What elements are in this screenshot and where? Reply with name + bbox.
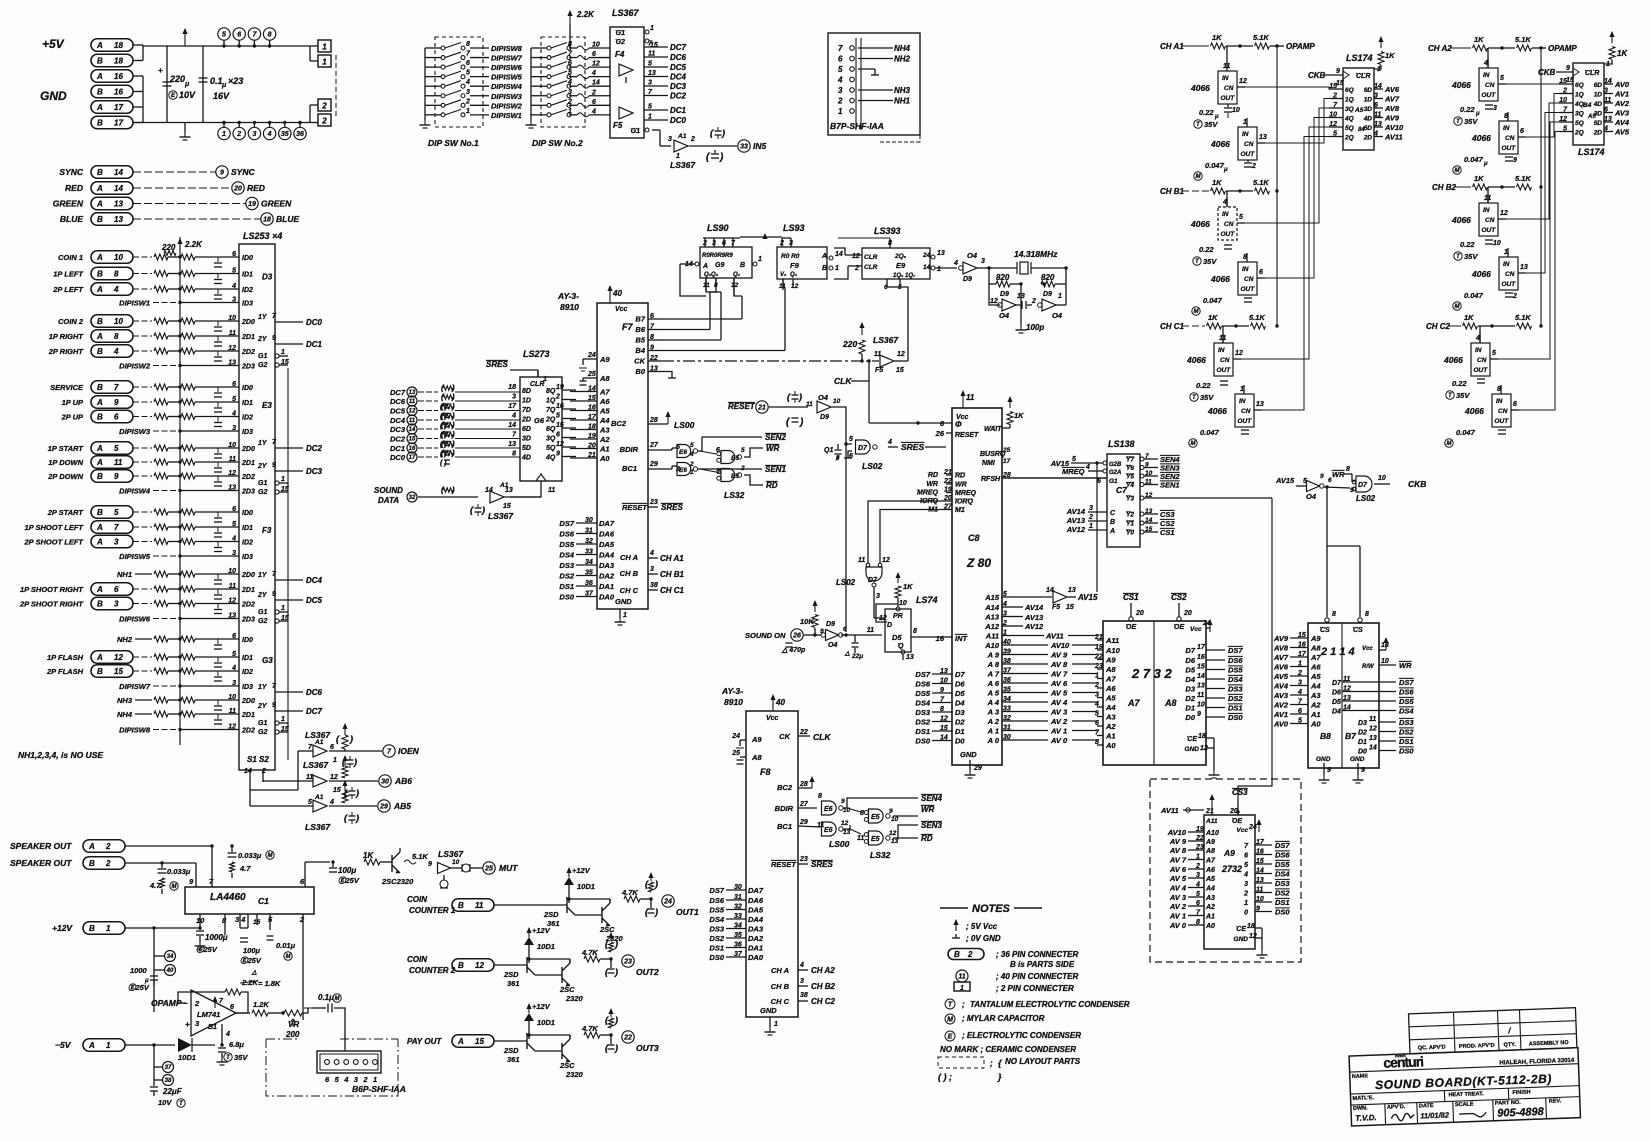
svg-text:ID3: ID3	[242, 684, 253, 691]
svg-text:): )	[451, 449, 455, 458]
svg-text:DS7: DS7	[1228, 646, 1243, 655]
svg-text:OE: OE	[1126, 624, 1136, 631]
svg-text:D5: D5	[1332, 699, 1341, 706]
svg-text:5.1K: 5.1K	[1253, 178, 1269, 187]
svg-text:3: 3	[252, 131, 256, 138]
svg-text:18: 18	[263, 217, 271, 224]
svg-text:1000: 1000	[130, 966, 148, 975]
svg-text:B: B	[97, 119, 103, 128]
svg-text:32: 32	[585, 538, 593, 545]
svg-text:APV’D.: APV’D.	[1387, 1104, 1406, 1111]
svg-text:31: 31	[734, 894, 742, 901]
svg-text:CH B2: CH B2	[811, 982, 836, 991]
svg-text:B: B	[97, 270, 103, 279]
svg-text:4066: 4066	[1451, 80, 1471, 90]
svg-text:27: 27	[799, 801, 809, 808]
svg-text:DIPISW2: DIPISW2	[119, 362, 151, 371]
svg-text:T: T	[948, 1002, 953, 1009]
svg-text:NOTES: NOTES	[972, 903, 1011, 915]
svg-text:G6: G6	[534, 416, 545, 425]
svg-text:+5V: +5V	[42, 37, 65, 51]
svg-text:100p: 100p	[1026, 323, 1044, 332]
svg-text:A0: A0	[1310, 720, 1321, 729]
svg-text:15: 15	[475, 1037, 484, 1046]
svg-text:1K: 1K	[903, 582, 913, 591]
svg-text:1Y: 1Y	[258, 684, 268, 691]
svg-text:1: 1	[676, 153, 680, 160]
svg-text:AV 9: AV 9	[1169, 837, 1187, 846]
svg-text:LS32: LS32	[870, 850, 891, 860]
svg-text:G1: G1	[258, 720, 267, 727]
svg-text:37: 37	[165, 1065, 172, 1071]
svg-text:CH A1: CH A1	[1160, 42, 1184, 51]
svg-text:+: +	[158, 66, 163, 75]
svg-text:DS0: DS0	[1228, 713, 1243, 722]
svg-text:1: 1	[623, 612, 627, 619]
svg-text:27: 27	[649, 442, 659, 449]
svg-text:F3: F3	[262, 526, 272, 535]
svg-text:V₀: V₀	[780, 272, 787, 278]
svg-text:AV 1: AV 1	[1169, 912, 1186, 921]
svg-text:10D1: 10D1	[537, 1018, 555, 1027]
svg-text:Y4: Y4	[1126, 482, 1134, 489]
svg-text:5: 5	[232, 521, 236, 528]
svg-text:6: 6	[114, 585, 119, 594]
svg-text:5: 5	[1492, 350, 1496, 357]
svg-text:13: 13	[843, 829, 851, 836]
svg-text:4: 4	[113, 285, 119, 294]
svg-text:△: △	[251, 969, 257, 976]
svg-text:29: 29	[379, 804, 388, 811]
svg-text:LS02: LS02	[862, 461, 883, 471]
svg-text:G1: G1	[258, 480, 267, 487]
svg-text:): )	[481, 505, 485, 515]
svg-text:DC4: DC4	[670, 73, 687, 82]
svg-text:14: 14	[508, 422, 516, 429]
svg-text:2Y: 2Y	[257, 463, 268, 470]
svg-text:10: 10	[833, 398, 841, 405]
svg-text:CN: CN	[1224, 221, 1234, 228]
svg-text:DIPISW5: DIPISW5	[491, 73, 523, 82]
svg-text:A 0: A 0	[987, 736, 1000, 745]
svg-text:): )	[654, 907, 658, 917]
svg-text:5: 5	[1072, 456, 1076, 463]
svg-text:= 1.8K: = 1.8K	[258, 979, 281, 988]
svg-text:μ: μ	[835, 455, 840, 461]
svg-text:CH B: CH B	[771, 982, 790, 991]
svg-text:DS7: DS7	[559, 519, 574, 528]
svg-text:9: 9	[1566, 65, 1570, 72]
svg-text:12: 12	[879, 615, 887, 622]
svg-text:2P FLASH: 2P FLASH	[46, 667, 84, 676]
svg-text:15: 15	[1066, 604, 1074, 611]
svg-text:31: 31	[585, 528, 593, 535]
svg-text:SERVICE: SERVICE	[50, 383, 84, 392]
svg-text:12: 12	[330, 774, 338, 781]
svg-text:5: 5	[556, 413, 560, 420]
svg-text:1Y: 1Y	[258, 440, 268, 447]
svg-text:6: 6	[838, 55, 843, 64]
svg-text:B: B	[740, 262, 745, 269]
svg-text:DS6: DS6	[559, 530, 574, 539]
svg-text:A5: A5	[599, 407, 610, 416]
svg-text:DS1: DS1	[1399, 737, 1414, 746]
svg-text:COIN 2: COIN 2	[58, 317, 84, 326]
svg-text:A: A	[96, 200, 103, 209]
svg-text:40: 40	[775, 698, 785, 707]
svg-text:IN: IN	[1483, 207, 1490, 214]
svg-text:28: 28	[799, 781, 808, 788]
svg-text:9: 9	[889, 808, 893, 815]
svg-text:OUT: OUT	[1502, 145, 1517, 152]
svg-text:1D: 1D	[522, 398, 531, 405]
svg-text:2P UP: 2P UP	[61, 413, 84, 422]
svg-text:361: 361	[507, 979, 520, 988]
svg-text:3: 3	[668, 136, 672, 143]
svg-text:2: 2	[105, 859, 111, 868]
svg-text:B: B	[97, 215, 103, 224]
svg-text:2: 2	[321, 102, 327, 111]
svg-text:IN: IN	[1503, 261, 1510, 268]
svg-text:DC0: DC0	[306, 318, 323, 327]
svg-text:36: 36	[585, 580, 593, 587]
svg-text:14: 14	[835, 251, 843, 258]
svg-text:CH A: CH A	[771, 966, 789, 975]
svg-text:; 5V Vcc: ; 5V Vcc	[966, 922, 998, 931]
svg-text:6Q: 6Q	[546, 426, 556, 433]
svg-text:40: 40	[166, 968, 174, 974]
svg-text:32: 32	[409, 495, 416, 501]
svg-text:9: 9	[114, 398, 119, 407]
svg-text:CH A2: CH A2	[1428, 44, 1452, 53]
svg-text:12: 12	[228, 598, 236, 605]
svg-text:DS4: DS4	[1275, 870, 1290, 879]
svg-text:10: 10	[1232, 107, 1240, 114]
svg-text:35V: 35V	[1464, 117, 1478, 126]
svg-text:2320: 2320	[565, 1070, 584, 1079]
svg-text:SPEAKER OUT: SPEAKER OUT	[10, 841, 72, 851]
svg-text:ID3: ID3	[242, 301, 253, 308]
svg-text:AV1: AV1	[1614, 90, 1629, 99]
svg-text:10: 10	[940, 678, 948, 685]
svg-text:CLR: CLR	[864, 254, 878, 261]
svg-text:NO LAYOUT PARTS: NO LAYOUT PARTS	[1005, 1057, 1081, 1066]
svg-text:4: 4	[465, 79, 470, 86]
svg-text:DA3: DA3	[599, 561, 615, 570]
svg-text:4: 4	[231, 536, 236, 543]
svg-text:B: B	[97, 383, 103, 392]
svg-text:3: 3	[876, 593, 880, 600]
svg-text:AV 9: AV 9	[1050, 651, 1068, 660]
svg-text:3D: 3D	[522, 436, 531, 443]
svg-text:1: 1	[1196, 854, 1200, 861]
svg-text:CKB: CKB	[1538, 68, 1556, 77]
svg-text:2SC: 2SC	[599, 925, 615, 934]
svg-text:6: 6	[592, 99, 596, 106]
svg-text:2D: 2D	[521, 417, 531, 424]
svg-text:F8: F8	[760, 767, 771, 777]
svg-text:COIN: COIN	[407, 955, 427, 964]
svg-text:REV.: REV.	[1549, 1098, 1562, 1104]
svg-text:LS367: LS367	[438, 849, 464, 859]
svg-text:DA1: DA1	[748, 944, 763, 953]
svg-text:DA2: DA2	[748, 934, 764, 943]
svg-text:9: 9	[272, 702, 276, 709]
svg-text:21: 21	[757, 405, 766, 412]
svg-text:BUSRQ: BUSRQ	[980, 451, 1006, 458]
svg-text:DATA: DATA	[378, 496, 399, 505]
svg-text:8: 8	[940, 706, 944, 713]
svg-text:GND: GND	[760, 1006, 777, 1015]
svg-text:DC5: DC5	[306, 596, 323, 605]
svg-text:0.033μ: 0.033μ	[167, 867, 191, 876]
svg-text:ID1: ID1	[242, 272, 253, 279]
svg-text:A4: A4	[1310, 682, 1321, 691]
svg-text:DA4: DA4	[599, 551, 615, 560]
svg-text:GREEN: GREEN	[53, 199, 84, 209]
svg-text:11: 11	[1369, 716, 1376, 723]
svg-text:D6: D6	[1332, 690, 1341, 697]
svg-text:FINISH: FINISH	[1512, 1089, 1530, 1096]
svg-text:; ELECTROLYTIC CONDENSER: ; ELECTROLYTIC CONDENSER	[962, 1031, 1081, 1040]
svg-text:CN: CN	[1244, 141, 1254, 148]
svg-text:E6: E6	[824, 827, 833, 834]
svg-text:13: 13	[1197, 683, 1205, 690]
svg-text:0.033μ: 0.033μ	[238, 851, 262, 860]
svg-text:DS3: DS3	[709, 925, 724, 934]
svg-text:D5: D5	[892, 633, 902, 642]
svg-text:12: 12	[731, 282, 739, 289]
svg-text:25: 25	[731, 750, 740, 757]
svg-text:DS0: DS0	[709, 953, 724, 962]
svg-text:4: 4	[343, 1075, 349, 1084]
svg-text:MREQ: MREQ	[917, 490, 939, 497]
svg-text:2D1: 2D1	[241, 460, 255, 467]
svg-text:DS7: DS7	[1399, 678, 1414, 687]
svg-text:5: 5	[648, 104, 652, 111]
svg-text:E5: E5	[871, 836, 880, 843]
svg-text:CN: CN	[1485, 82, 1495, 89]
svg-text:16: 16	[114, 72, 123, 81]
svg-text:2: 2	[591, 89, 596, 96]
svg-text:S1 S2: S1 S2	[247, 755, 269, 764]
svg-text:E: E	[948, 1034, 953, 1041]
svg-text:3: 3	[648, 80, 652, 87]
svg-text:DA4: DA4	[748, 915, 764, 924]
svg-text:22: 22	[799, 729, 808, 736]
svg-text:A0: A0	[1105, 741, 1116, 750]
svg-text:A3: A3	[1205, 895, 1215, 902]
svg-text:): )	[654, 879, 658, 889]
svg-text:DS6: DS6	[709, 896, 724, 905]
svg-text:A: A	[96, 444, 103, 453]
svg-text:NH1: NH1	[117, 570, 132, 579]
svg-text:CH B2: CH B2	[1432, 183, 1457, 192]
svg-text:820: 820	[1041, 273, 1055, 282]
svg-text:0.047: 0.047	[1200, 428, 1220, 437]
svg-text:2D3: 2D3	[241, 364, 255, 371]
svg-text:19: 19	[248, 201, 256, 208]
svg-text:7: 7	[114, 523, 119, 532]
svg-text:CS1: CS1	[1160, 528, 1175, 537]
svg-text:IN: IN	[1218, 347, 1225, 354]
svg-text:4066: 4066	[1210, 139, 1230, 149]
svg-text:B: B	[458, 901, 464, 910]
svg-text:2: 2	[299, 915, 305, 924]
svg-text:14: 14	[1046, 587, 1054, 594]
svg-text:G2B: G2B	[1109, 462, 1122, 468]
svg-text:A 2: A 2	[987, 717, 1000, 726]
svg-text:D9: D9	[963, 276, 972, 283]
svg-text:R0R0R9R9: R0R0R9R9	[702, 253, 733, 259]
svg-text:5: 5	[222, 32, 226, 39]
svg-text:AV8: AV8	[1273, 644, 1289, 653]
svg-text:13: 13	[228, 360, 236, 367]
svg-text:23: 23	[623, 959, 632, 966]
svg-text:4: 4	[1243, 872, 1248, 879]
svg-text:DA3: DA3	[748, 925, 764, 934]
svg-text:CLK: CLK	[834, 376, 852, 386]
svg-text:6Q: 6Q	[1575, 82, 1584, 89]
svg-text:17: 17	[1003, 458, 1011, 465]
svg-text:25: 25	[1002, 447, 1011, 454]
svg-text:30: 30	[734, 884, 742, 891]
svg-text:2D3: 2D3	[241, 617, 255, 624]
svg-text:DATE: DATE	[1419, 1103, 1434, 1110]
svg-text:E6: E6	[824, 806, 833, 813]
svg-text:IN: IN	[1222, 75, 1229, 82]
svg-text:D0: D0	[1185, 713, 1195, 722]
svg-text:38: 38	[165, 1078, 172, 1084]
svg-text:AV9: AV9	[1384, 114, 1400, 123]
svg-text:DS5: DS5	[1228, 666, 1243, 675]
svg-text:9: 9	[272, 462, 276, 469]
svg-text:WR: WR	[921, 805, 935, 814]
svg-text:5: 5	[849, 436, 853, 443]
svg-text:2 7 3 2: 2 7 3 2	[1131, 666, 1173, 681]
svg-text:A: A	[457, 1037, 464, 1046]
svg-text:1Q: 1Q	[1575, 92, 1584, 99]
svg-text:): )	[451, 440, 455, 449]
svg-text:8: 8	[860, 810, 864, 817]
svg-text:CS: CS	[1320, 627, 1330, 634]
svg-text:CS: CS	[1353, 627, 1363, 634]
svg-text:12: 12	[475, 961, 484, 970]
svg-text:13: 13	[114, 215, 123, 224]
svg-text:13: 13	[228, 613, 236, 620]
svg-text:DS6: DS6	[915, 680, 930, 689]
svg-text:C1: C1	[258, 896, 269, 906]
svg-text:4066: 4066	[1190, 83, 1210, 93]
svg-text:8: 8	[466, 41, 470, 48]
svg-text:4066: 4066	[1186, 355, 1206, 365]
svg-text:mmm: mmm	[1395, 1053, 1406, 1058]
svg-text:23: 23	[799, 856, 808, 863]
svg-text:B4: B4	[635, 346, 645, 355]
svg-text:4: 4	[225, 1031, 230, 1038]
svg-text:OUT: OUT	[1495, 418, 1510, 425]
svg-text:E6: E6	[679, 467, 687, 474]
svg-text:LA4460: LA4460	[210, 892, 246, 903]
svg-text:5: 5	[232, 396, 236, 403]
svg-text:D2: D2	[1358, 730, 1367, 737]
svg-text:14.318MHz: 14.318MHz	[1014, 249, 1058, 259]
svg-text:SYNC: SYNC	[59, 167, 83, 177]
svg-text:35V: 35V	[1200, 393, 1214, 402]
svg-text:A2: A2	[1105, 722, 1116, 731]
svg-text:2D1: 2D1	[241, 587, 255, 594]
svg-text:A 4: A 4	[987, 698, 1000, 707]
svg-text:LS367: LS367	[873, 335, 899, 345]
svg-text:8: 8	[114, 332, 119, 341]
svg-text:1: 1	[333, 757, 337, 764]
svg-text:1: 1	[106, 1041, 111, 1050]
svg-text:2: 2	[1088, 514, 1093, 521]
svg-text:A3: A3	[1105, 713, 1116, 722]
svg-text:CN: CN	[1505, 271, 1515, 278]
svg-text:6D: 6D	[1364, 87, 1373, 94]
svg-text:0.047: 0.047	[1464, 291, 1484, 300]
svg-text:A: A	[88, 842, 95, 851]
svg-text:2P LEFT: 2P LEFT	[52, 285, 84, 294]
svg-text:10: 10	[114, 317, 123, 326]
svg-text:OUT: OUT	[1217, 367, 1232, 374]
svg-text:11: 11	[874, 351, 881, 358]
svg-text:OUT: OUT	[1221, 95, 1236, 102]
svg-text:9: 9	[556, 451, 560, 458]
svg-text:; 0V GND: ; 0V GND	[966, 934, 1001, 943]
svg-text:6D: 6D	[1594, 82, 1603, 89]
svg-text:1: 1	[648, 114, 652, 121]
svg-text:14: 14	[114, 168, 123, 177]
svg-text:AV5: AV5	[1273, 672, 1289, 681]
svg-text:84: 84	[1358, 127, 1365, 133]
svg-text:2Y: 2Y	[257, 703, 268, 710]
svg-text:A2: A2	[599, 435, 610, 444]
svg-text:D3: D3	[1358, 720, 1367, 727]
svg-text:35V: 35V	[1464, 252, 1478, 261]
svg-text:10: 10	[1381, 658, 1389, 665]
svg-text:CH C1: CH C1	[1160, 322, 1185, 331]
svg-text:5: 5	[114, 444, 119, 453]
svg-text:DS3: DS3	[1399, 718, 1414, 727]
svg-text:1K: 1K	[1464, 313, 1474, 322]
svg-text:AV10: AV10	[1384, 123, 1404, 132]
svg-text:4D: 4D	[1363, 116, 1373, 123]
svg-text:29: 29	[973, 765, 982, 772]
svg-text:AY-3-: AY-3-	[721, 686, 743, 696]
svg-text:GND: GND	[1185, 746, 1200, 753]
svg-text:0.047: 0.047	[1464, 155, 1484, 164]
svg-text:; 36 PIN CONNECTER: ; 36 PIN CONNECTER	[996, 950, 1078, 959]
svg-text:10V: 10V	[158, 1098, 172, 1107]
svg-text:CH C1: CH C1	[660, 586, 685, 595]
svg-text:1: 1	[1058, 293, 1062, 300]
svg-text:13: 13	[1369, 735, 1377, 742]
svg-text:B: B	[89, 924, 95, 933]
svg-text:AV6: AV6	[1384, 85, 1400, 94]
svg-text:LS93: LS93	[783, 223, 805, 233]
svg-text:B: B	[97, 667, 103, 676]
svg-text:A: A	[96, 253, 103, 262]
svg-text:VR: VR	[288, 1020, 299, 1029]
svg-text:DS5: DS5	[1399, 697, 1414, 706]
svg-text:10: 10	[114, 253, 123, 262]
svg-text:34: 34	[734, 923, 742, 930]
svg-text:μ: μ	[184, 81, 190, 88]
svg-text:6: 6	[1513, 401, 1517, 408]
svg-text:10D1: 10D1	[537, 942, 555, 951]
